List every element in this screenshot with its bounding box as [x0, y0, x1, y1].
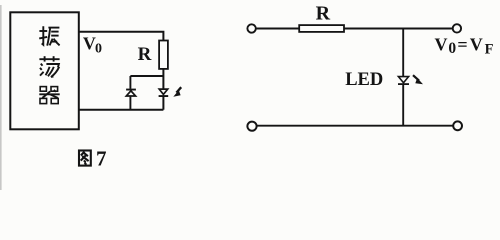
svg-text:V: V: [435, 34, 448, 54]
svg-text:0: 0: [448, 40, 456, 57]
svg-text:=: =: [457, 34, 467, 54]
svg-text:R: R: [138, 44, 152, 65]
svg-text:0: 0: [95, 41, 102, 56]
svg-text:7: 7: [96, 146, 107, 170]
svg-text:V: V: [470, 34, 483, 54]
svg-text:V: V: [83, 34, 96, 54]
svg-text:R: R: [316, 3, 331, 25]
svg-text:LED: LED: [345, 70, 383, 90]
svg-text:F: F: [485, 42, 494, 58]
